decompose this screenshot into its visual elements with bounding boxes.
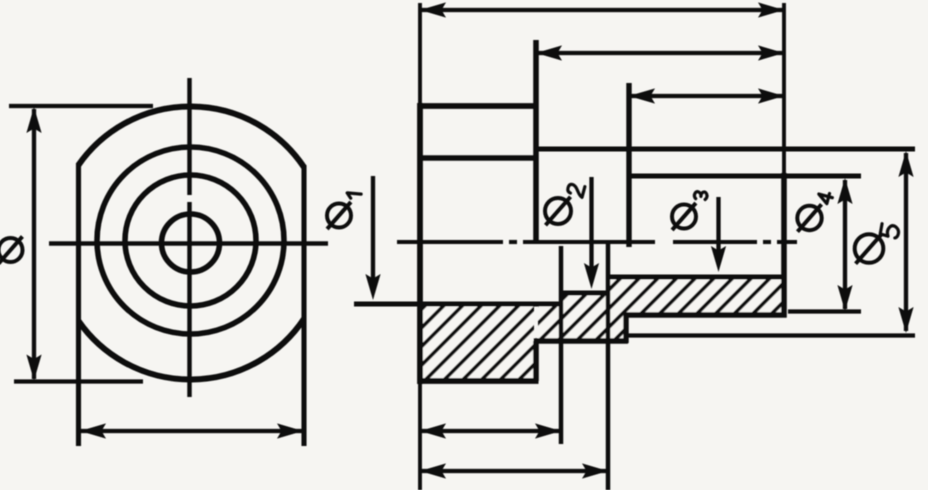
left view horizontal centerline [49, 241, 328, 246]
part left edge [417, 103, 423, 384]
step edge middle/right [626, 83, 631, 247]
left view outer circle top arc [79, 107, 305, 168]
bottom dimension B line [421, 469, 607, 473]
flange top edge [418, 103, 539, 109]
hatched section region under flange [421, 306, 534, 379]
third length dimension line [630, 94, 783, 98]
left view circle 3 [125, 175, 256, 306]
bore wall under middle section [561, 290, 608, 295]
right extension line above part [782, 3, 786, 176]
right section bottom edge [624, 312, 787, 318]
left view circle 2 [97, 147, 284, 334]
hatched section region under right step [610, 279, 782, 339]
middle section top edge + dia5 top extension [534, 147, 916, 152]
dia1 leader line and arrow [371, 176, 375, 283]
left extension line above flange [418, 3, 422, 106]
dia5 label [855, 234, 884, 263]
bore wall under flange [354, 301, 561, 306]
dia1 label [327, 204, 351, 228]
lower step edge flange/middle [533, 341, 539, 381]
right view centerline dash-dot [397, 240, 503, 244]
left flat edge and extension line [76, 163, 81, 446]
dia5 bottom extension line [628, 333, 915, 337]
left view vertical centerline [187, 78, 192, 195]
left view diameter dim top extension line [9, 104, 153, 108]
second length dimension line [537, 51, 783, 55]
left view diameter dim bottom extension line [14, 379, 143, 383]
flange flat edge line [418, 155, 539, 160]
dia3 label [672, 205, 696, 229]
bottom dimension A line [421, 429, 560, 433]
overall length dimension line [421, 8, 783, 12]
dia4 bottom extension line [788, 309, 861, 313]
left view outer circle bottom arc [79, 319, 305, 380]
middle section bottom edge [534, 338, 629, 344]
hatched section region under middle step [538, 295, 606, 339]
dia3 leader line and arrow [716, 197, 720, 255]
right flat edge and extension line [301, 165, 306, 446]
left extension line below flange [418, 381, 422, 490]
step edge flange/middle [533, 40, 539, 240]
lower step edge middle/right [623, 315, 628, 343]
dia4 dimension line [843, 180, 847, 309]
left view inner bore circle [162, 214, 220, 272]
bore wall under right section [608, 274, 784, 279]
flange bottom edge [418, 378, 539, 384]
bore step edge + bottom dim extension x561 [559, 246, 564, 444]
right section top edge + dia4 top extension [627, 173, 862, 178]
dia4 label [797, 206, 821, 230]
bore step edge + bottom dim extension x608 [606, 242, 611, 490]
left view vertical dimension line [32, 109, 36, 379]
part right edge [781, 173, 787, 318]
left view bottom width dimension line [81, 429, 302, 433]
dia5 dimension line [904, 153, 908, 331]
left view diameter label [0, 238, 23, 262]
dia2 label [545, 198, 571, 224]
dia2 leader line and arrow [589, 177, 593, 272]
